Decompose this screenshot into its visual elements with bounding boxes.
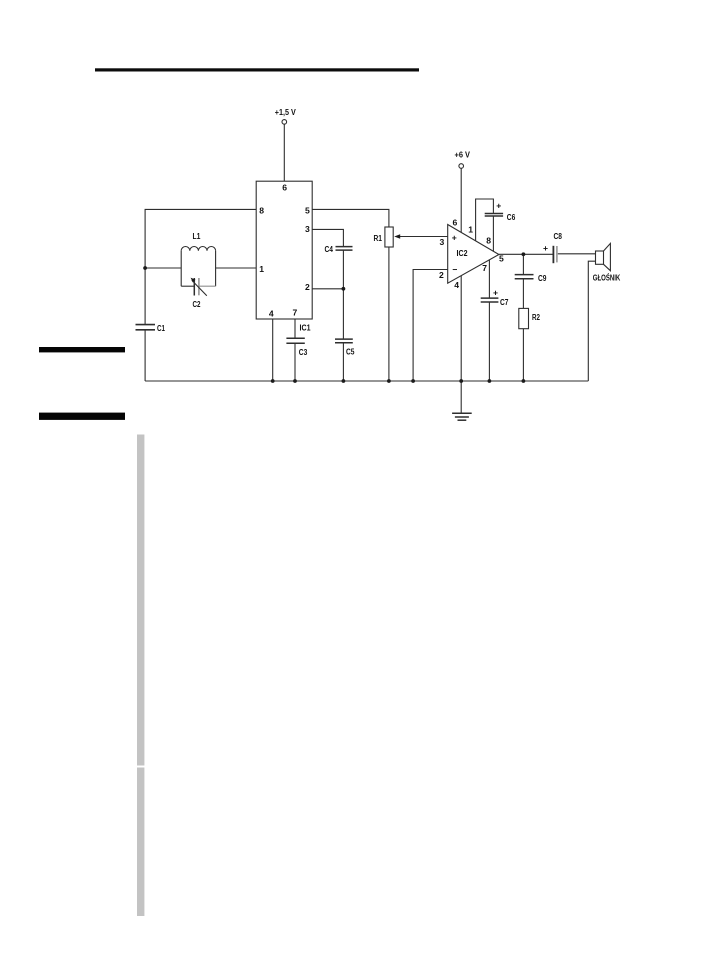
IC1 box — [256, 181, 312, 319]
+1,5V terminal circle — [282, 120, 287, 125]
wire IC2 pin7 to C7 — [488, 260, 490, 298]
svg-text:5: 5 — [499, 254, 504, 264]
capacitor C9 plates — [515, 274, 534, 276]
node R2 rail — [522, 379, 526, 383]
resistor R2 body — [519, 308, 529, 328]
svg-text:IC1: IC1 — [300, 322, 311, 332]
redaction bar 1 — [39, 347, 125, 352]
svg-text:7: 7 — [482, 263, 487, 273]
potentiometer R1 body — [385, 227, 393, 247]
node tank/C1 junction — [143, 266, 147, 270]
wire IC1 pin8 left — [145, 209, 256, 324]
wire C4 to pin2 node — [342, 250, 344, 288]
wire IC1 pin2 — [312, 288, 343, 290]
wire C8 to speaker — [558, 253, 596, 255]
ground rail — [145, 380, 588, 382]
svg-text:8: 8 — [486, 236, 491, 246]
ground symbol — [452, 412, 472, 414]
svg-text:3: 3 — [305, 224, 310, 234]
redaction bar 2 — [39, 413, 125, 420]
node ground rail — [459, 379, 463, 383]
capacitor C4 plates — [336, 246, 353, 248]
wire IC2 pin2 to rail — [413, 270, 448, 382]
wire IC2 pin4 to rail and ground — [460, 276, 462, 413]
svg-text:+: + — [543, 243, 548, 253]
tank box left edge — [180, 251, 182, 286]
+6V terminal circle — [459, 164, 464, 169]
left margin gray bar segment 1 — [137, 435, 144, 766]
C2 variable arrow — [192, 280, 207, 296]
wire R1 to rail — [388, 247, 390, 381]
node C5 pin2 — [342, 287, 346, 291]
svg-text:IC2: IC2 — [457, 248, 468, 258]
svg-text:5: 5 — [305, 205, 310, 215]
wire R2 to rail — [522, 329, 524, 381]
capacitor C3 plates — [286, 337, 304, 339]
R1 wiper arrowhead — [394, 234, 400, 239]
heading underline rule — [95, 68, 419, 71]
labels — [157, 107, 621, 357]
wire IC1 pin3 to C4 — [312, 229, 343, 246]
output wire IC2 pin5 to C8 — [499, 253, 553, 255]
node R1 rail — [387, 379, 391, 383]
wire C5 to rail — [342, 343, 344, 381]
wire tank right to IC1 pin1 — [216, 267, 257, 269]
wire node to C5 — [342, 289, 344, 339]
capacitor C1 plates — [136, 324, 156, 326]
wire IC1 pin5 to R1 — [312, 209, 389, 227]
svg-text:R2: R2 — [532, 312, 540, 322]
wire C3 to rail — [294, 344, 296, 381]
svg-text:+1,5 V: +1,5 V — [275, 107, 296, 117]
svg-text:2: 2 — [439, 270, 444, 280]
node C3 rail — [293, 379, 297, 383]
capacitor C2 plates — [193, 278, 195, 296]
wire IC1 pin4 to rail — [272, 319, 274, 381]
speaker body rectangle — [596, 251, 604, 264]
C2 arrowhead — [191, 278, 196, 283]
node C7 rail — [488, 379, 492, 383]
node IC1 pin4 rail — [271, 379, 275, 383]
svg-text:+6 V: +6 V — [455, 150, 471, 160]
svg-text:C7: C7 — [500, 297, 509, 307]
capacitor C8 plates — [552, 246, 554, 263]
svg-text:C2: C2 — [193, 299, 201, 309]
svg-text:C6: C6 — [507, 212, 516, 222]
svg-text:7: 7 — [293, 308, 298, 318]
svg-text:C1: C1 — [157, 323, 165, 333]
capacitor C5 plates — [335, 338, 353, 340]
svg-text:−: − — [452, 265, 457, 275]
svg-text:C3: C3 — [299, 347, 308, 357]
tank box right edge — [215, 251, 217, 286]
wire node to tank left — [145, 267, 181, 269]
wire C9 to R2 — [522, 279, 524, 308]
wire IC1 pin7 to C3 — [294, 319, 296, 338]
svg-text:+: + — [496, 201, 501, 211]
svg-text:6: 6 — [453, 218, 458, 228]
tank box bottom edge split for C2 — [181, 285, 194, 287]
op-amp IC2 triangle — [448, 225, 499, 284]
svg-text:2: 2 — [305, 282, 310, 292]
wire C1 to ground rail — [144, 330, 146, 381]
svg-text:+: + — [493, 287, 498, 297]
svg-text:R1: R1 — [374, 233, 383, 243]
svg-text:+: + — [452, 232, 457, 242]
junction dots — [143, 234, 525, 383]
svg-text:6: 6 — [282, 182, 287, 192]
svg-text:3: 3 — [440, 237, 445, 247]
svg-text:C8: C8 — [554, 231, 563, 241]
speaker cone — [604, 243, 611, 270]
svg-text:1: 1 — [259, 264, 264, 274]
capacitor C7 plates — [481, 297, 499, 299]
wire +1,5V to IC1 pin6 — [283, 124, 285, 181]
svg-text:C5: C5 — [346, 346, 355, 356]
svg-text:GŁOŚNIK: GŁOŚNIK — [593, 272, 621, 283]
svg-text:L1: L1 — [193, 231, 201, 241]
wire output node to C9 — [522, 254, 524, 274]
svg-text:4: 4 — [454, 280, 459, 290]
svg-text:8: 8 — [259, 205, 264, 215]
wire +6V to IC2 pin6 — [460, 168, 462, 232]
wire IC2 pin1 bracket to C6 — [476, 199, 494, 241]
svg-text:C9: C9 — [538, 273, 547, 283]
capacitor C6 plates — [485, 213, 503, 215]
speaker return wire — [588, 261, 595, 381]
svg-text:C4: C4 — [325, 244, 334, 254]
inductor L1 humps — [181, 246, 215, 250]
node pin2 feedback rail — [411, 379, 415, 383]
wire C6 to IC2 pin8 — [492, 216, 494, 251]
wire C7 to rail — [488, 302, 490, 381]
node output/C9 — [522, 252, 526, 256]
node C5 rail — [342, 379, 346, 383]
svg-text:1: 1 — [468, 224, 473, 234]
left margin gray bar segment 2 — [137, 768, 144, 917]
R1 wiper wire — [399, 236, 448, 238]
svg-text:4: 4 — [269, 308, 274, 318]
